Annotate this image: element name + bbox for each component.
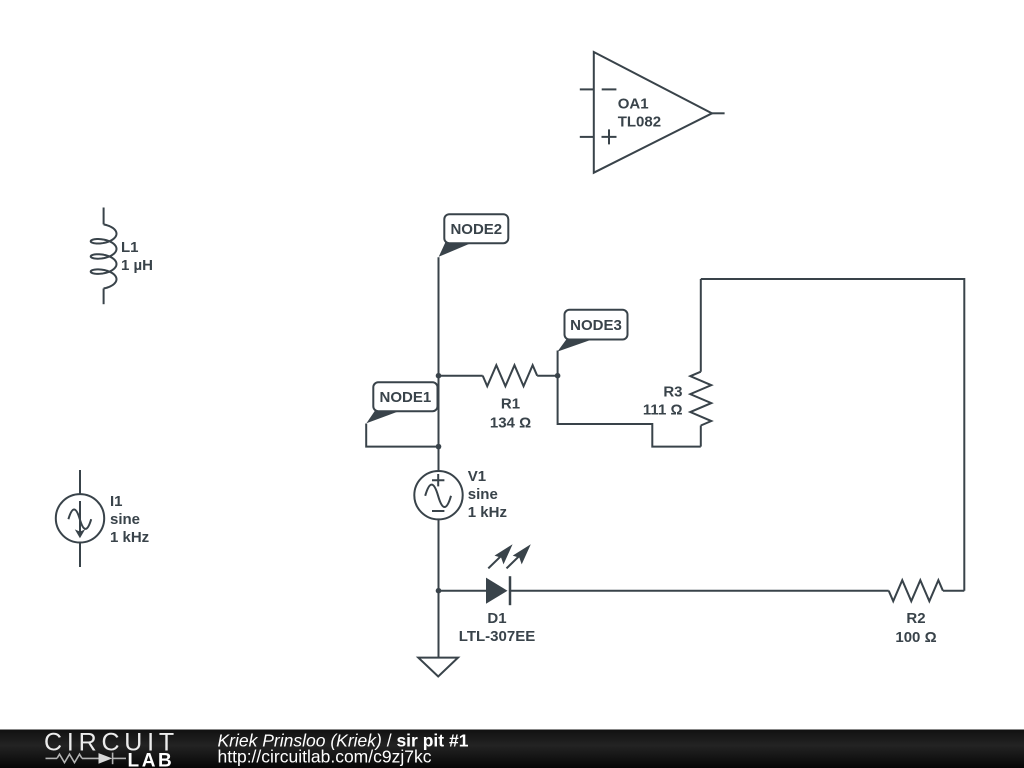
svg-text:R1: R1 [501, 396, 520, 413]
svg-text:1 kHz: 1 kHz [468, 504, 507, 521]
svg-text:V1: V1 [468, 468, 486, 485]
svg-text:OA1: OA1 [618, 96, 649, 113]
svg-text:NODE3: NODE3 [570, 317, 622, 334]
svg-text:I1: I1 [110, 493, 123, 510]
svg-text:LTL-307EE: LTL-307EE [459, 628, 535, 645]
svg-text:1 µH: 1 µH [121, 257, 153, 274]
svg-text:L1: L1 [121, 239, 139, 256]
svg-text:100 Ω: 100 Ω [895, 629, 936, 646]
svg-text:1 kHz: 1 kHz [110, 529, 149, 546]
svg-text:134 Ω: 134 Ω [490, 415, 531, 432]
svg-text:sine: sine [468, 486, 498, 503]
svg-text:NODE1: NODE1 [380, 389, 432, 406]
svg-text:http://circuitlab.com/c9zj7kc: http://circuitlab.com/c9zj7kc [218, 747, 432, 767]
svg-text:sine: sine [110, 511, 140, 528]
svg-text:R2: R2 [906, 610, 925, 627]
svg-text:D1: D1 [487, 610, 506, 627]
svg-text:NODE2: NODE2 [450, 221, 502, 238]
svg-text:111 Ω: 111 Ω [643, 402, 683, 419]
svg-text:LAB: LAB [128, 750, 175, 768]
svg-text:TL082: TL082 [618, 113, 661, 130]
svg-text:R3: R3 [663, 384, 682, 401]
